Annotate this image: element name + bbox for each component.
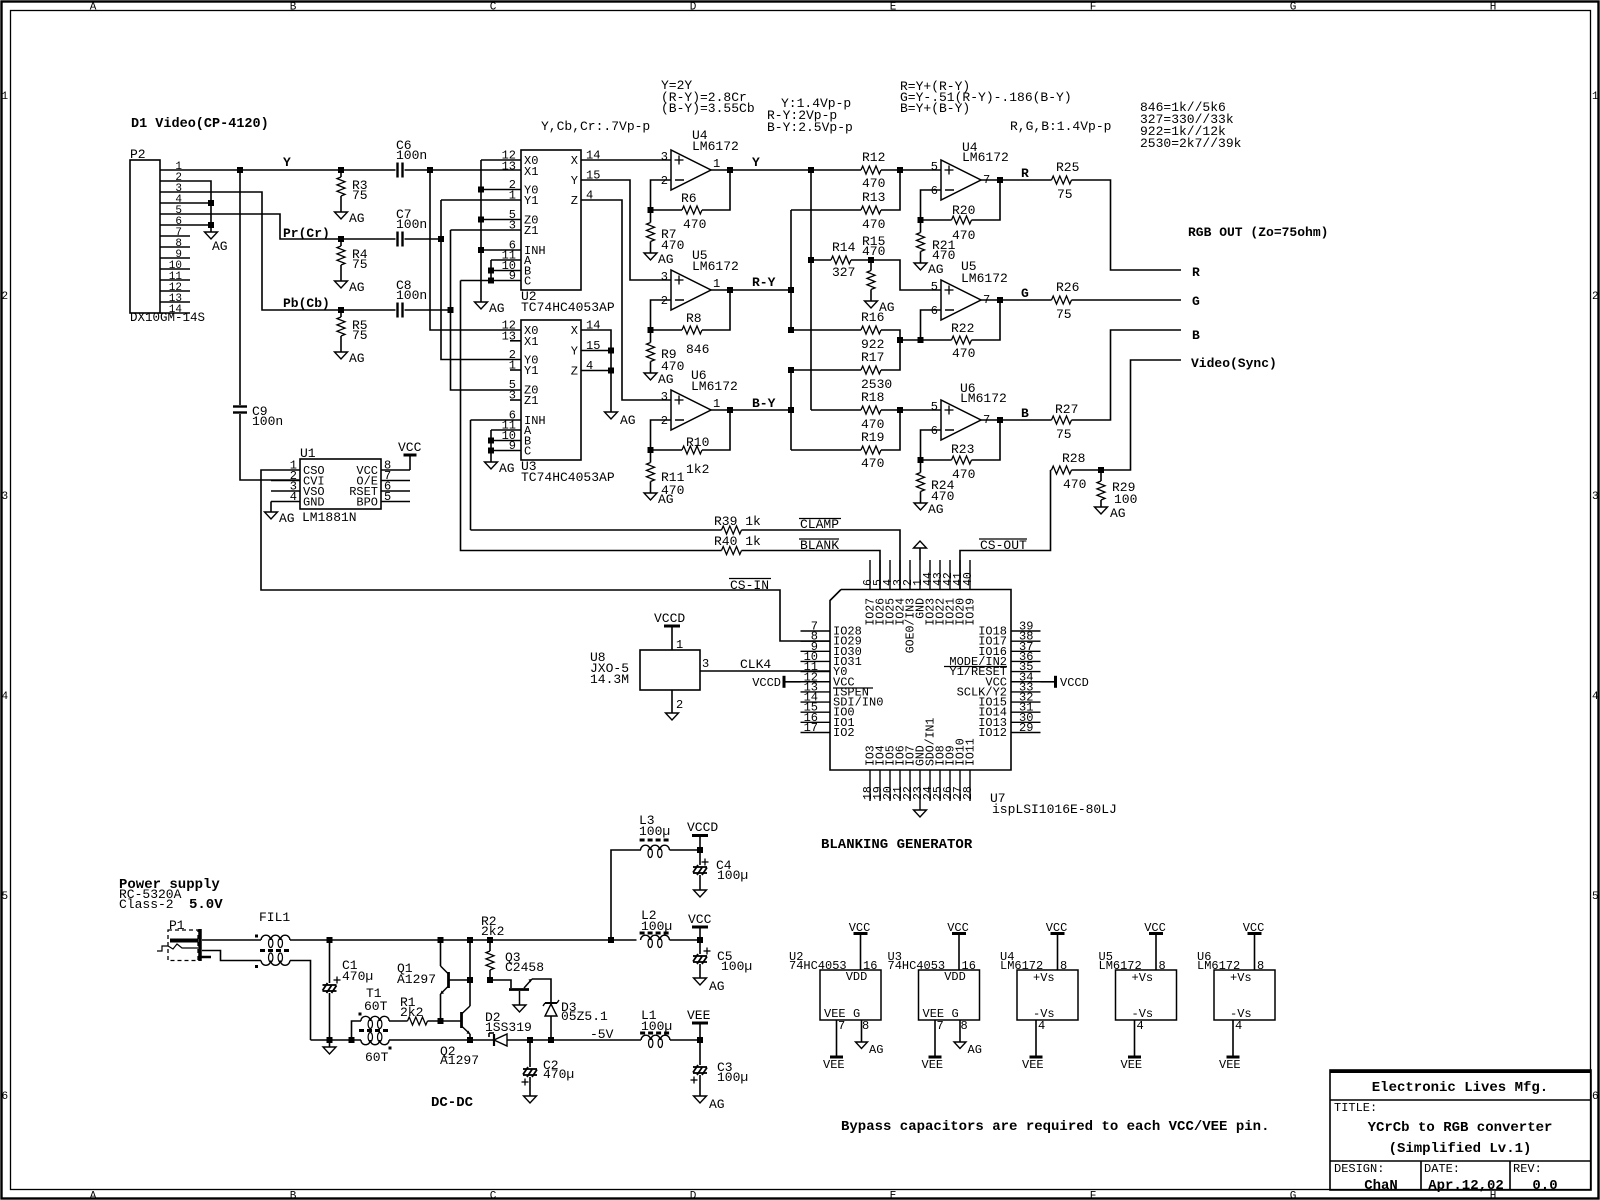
svg-text:3: 3 xyxy=(661,270,668,284)
svg-text:R: R xyxy=(1021,166,1029,181)
svg-text:R,G,B:1.4Vp-p: R,G,B:1.4Vp-p xyxy=(1010,119,1111,134)
wire U2 Z1 / U3 Z0 from Pb node xyxy=(451,229,522,231)
wire Video(Sync) output xyxy=(1101,360,1181,470)
svg-text:6: 6 xyxy=(931,304,938,318)
svg-text:X1: X1 xyxy=(524,165,538,179)
resistor R25 75 xyxy=(1052,176,1072,184)
wire Pr from P2 pin5 xyxy=(190,214,396,239)
wire P1 to FIL1 bottom xyxy=(202,951,261,961)
svg-text:8: 8 xyxy=(961,1019,968,1033)
svg-text:7: 7 xyxy=(937,1019,944,1033)
svg-text:8: 8 xyxy=(1159,959,1166,973)
resistor R16 922 xyxy=(791,329,861,331)
resistor R11 470 to AG xyxy=(647,463,655,482)
svg-text:H: H xyxy=(1490,2,1497,14)
svg-text:13: 13 xyxy=(502,159,516,173)
svg-text:2k2: 2k2 xyxy=(481,924,504,939)
wire U3 A B C to AG xyxy=(491,429,521,431)
svg-text:TC74HC4053AP: TC74HC4053AP xyxy=(521,470,615,485)
svg-text:IO12: IO12 xyxy=(978,726,1007,740)
svg-text:Z: Z xyxy=(571,365,578,379)
svg-text:470: 470 xyxy=(952,467,975,482)
wire U5- feedback xyxy=(651,300,672,343)
overline Y1/RESET xyxy=(944,666,1007,668)
svg-text:VEE: VEE xyxy=(1022,1058,1044,1072)
resistor R6 470 feedback xyxy=(651,209,683,211)
svg-text:B-Y: B-Y xyxy=(752,396,776,411)
svg-text:VCCD: VCCD xyxy=(654,611,685,626)
ground AG below R29 xyxy=(1095,507,1108,514)
wire bottom rail xyxy=(311,1039,362,1041)
svg-text:DESIGN:: DESIGN: xyxy=(1334,1162,1384,1176)
svg-text:17: 17 xyxy=(804,721,818,735)
svg-text:100n: 100n xyxy=(396,217,427,232)
svg-text:CLK4: CLK4 xyxy=(740,657,771,672)
svg-text:Z1: Z1 xyxy=(524,394,538,408)
svg-text:IO19: IO19 xyxy=(965,598,978,626)
svg-text:Y: Y xyxy=(571,174,578,188)
ground AG below R3 xyxy=(335,212,348,219)
svg-text:R16: R16 xyxy=(861,310,884,325)
svg-text:X1: X1 xyxy=(524,335,538,349)
resistor R20 470 feedback xyxy=(921,219,952,221)
resistor R28 470 from CS-OUT xyxy=(1051,469,1052,471)
oscillator U8 JXO-5 14.3M xyxy=(640,650,700,690)
svg-text:C: C xyxy=(490,2,497,14)
svg-text:2: 2 xyxy=(2,291,9,303)
wire U2 X to U4+ xyxy=(581,159,671,161)
wire B output xyxy=(981,419,1052,421)
svg-text:Y: Y xyxy=(752,155,760,170)
svg-text:28: 28 xyxy=(962,786,975,800)
svg-text:470: 470 xyxy=(861,456,884,471)
svg-text:F: F xyxy=(1090,1191,1097,1200)
wire BLANK R40 xyxy=(461,281,722,551)
svg-text:4: 4 xyxy=(1038,1019,1045,1033)
svg-text:D: D xyxy=(690,1191,697,1200)
svg-text:LM1881N: LM1881N xyxy=(302,510,357,525)
ground AG below R4 xyxy=(335,281,348,288)
analog switch U3 TC74HC4053AP xyxy=(521,320,581,460)
capacitor C1 470u xyxy=(329,940,331,983)
svg-text:05Z5.1: 05Z5.1 xyxy=(561,1009,608,1024)
svg-text:R17: R17 xyxy=(861,350,884,365)
svg-text:C: C xyxy=(524,445,531,459)
svg-text:AG: AG xyxy=(928,502,944,517)
wire U3 INH to CLAMP xyxy=(471,419,522,421)
svg-text:-5V: -5V xyxy=(590,1027,614,1042)
svg-text:Y: Y xyxy=(571,345,578,359)
svg-text:AG: AG xyxy=(709,1097,725,1112)
svg-text:C: C xyxy=(524,275,531,289)
svg-text:1: 1 xyxy=(713,277,720,291)
svg-text:G: G xyxy=(952,1007,959,1021)
svg-text:Y1: Y1 xyxy=(524,364,538,378)
wire L3 to VCCD xyxy=(670,849,701,851)
svg-text:AG: AG xyxy=(212,239,228,254)
power VCCD U7 left pin12 xyxy=(784,681,801,683)
ground arrow U7 top GND pin xyxy=(914,541,927,548)
ground U7 bottom GND pin xyxy=(919,801,921,810)
svg-text:BLANKING GENERATOR: BLANKING GENERATOR xyxy=(821,837,973,853)
svg-text:B=Y+(B-Y): B=Y+(B-Y) xyxy=(900,101,970,116)
svg-text:6: 6 xyxy=(931,424,938,438)
capacitor C5 100u xyxy=(699,940,701,954)
svg-text:U1: U1 xyxy=(300,446,316,461)
svg-text:60T: 60T xyxy=(364,999,388,1014)
resistor R24 470 to AG xyxy=(917,473,925,492)
svg-text:1: 1 xyxy=(713,397,720,411)
svg-text:F: F xyxy=(1090,2,1097,14)
wire U2 Y1 / U3 Y0 from Pr node xyxy=(441,199,521,201)
ground AG below R9 xyxy=(644,373,657,380)
svg-text:Pr(Cr): Pr(Cr) xyxy=(283,226,330,241)
svg-text:CS-IN: CS-IN xyxy=(730,578,769,593)
svg-text:Y1: Y1 xyxy=(524,194,538,208)
svg-text:100µ: 100µ xyxy=(717,1070,748,1085)
svg-text:AG: AG xyxy=(709,979,725,994)
svg-text:470µ: 470µ xyxy=(342,969,373,984)
svg-text:327: 327 xyxy=(832,265,855,280)
svg-text:TITLE:: TITLE: xyxy=(1334,1101,1377,1115)
title block xyxy=(1330,1070,1591,1190)
power VCC rail xyxy=(699,928,701,940)
wire rail to VCC xyxy=(670,939,701,941)
svg-text:60T: 60T xyxy=(365,1050,389,1065)
svg-text:VEE: VEE xyxy=(1121,1058,1143,1072)
resistor R14 327 xyxy=(811,259,831,261)
svg-text:Class-2: Class-2 xyxy=(119,897,174,912)
svg-text:R6: R6 xyxy=(681,191,697,206)
wire U4- feedback xyxy=(651,180,672,223)
svg-text:14: 14 xyxy=(169,304,183,316)
svg-text:LM6172: LM6172 xyxy=(961,271,1008,286)
wire U2 ground bus X0 Y0 Z0 INH xyxy=(481,159,521,161)
svg-text:5: 5 xyxy=(1592,891,1599,903)
svg-text:R25: R25 xyxy=(1056,160,1079,175)
ground U8 pin2 xyxy=(671,690,673,713)
PLD U7 ispLSI1016E-80LJ xyxy=(830,590,1011,771)
svg-text:4: 4 xyxy=(1137,1019,1144,1033)
svg-text:100n: 100n xyxy=(396,148,427,163)
svg-text:AG: AG xyxy=(658,492,674,507)
svg-text:+Vs: +Vs xyxy=(1230,971,1252,985)
wire U1 CSO to CS-IN xyxy=(261,470,830,641)
svg-text:E: E xyxy=(890,1191,897,1200)
svg-text:100: 100 xyxy=(1114,492,1137,507)
svg-text:VCCD: VCCD xyxy=(1060,676,1089,690)
svg-text:X: X xyxy=(571,154,578,168)
svg-text:ChaN: ChaN xyxy=(1364,1178,1398,1194)
svg-text:4: 4 xyxy=(2,691,9,703)
connector P2 DX10GM-14S xyxy=(130,160,160,313)
sync separator U1 LM1881N xyxy=(300,459,381,509)
power VEE xyxy=(699,1024,701,1040)
svg-text:G: G xyxy=(1021,286,1029,301)
wire U2 Y to U5+ xyxy=(581,180,671,280)
ground AG below R24 xyxy=(914,503,927,510)
wire U4 output Y node xyxy=(711,169,812,171)
svg-text:2: 2 xyxy=(1592,291,1599,303)
wire U2 A B C tied to BLANK xyxy=(491,259,521,261)
wire CLAMP R39 xyxy=(471,529,722,531)
svg-text:AG: AG xyxy=(928,262,944,277)
svg-text:75: 75 xyxy=(352,257,368,272)
svg-text:6: 6 xyxy=(931,184,938,198)
resistor R22 470 feedback xyxy=(921,339,952,341)
wire CS-OUT xyxy=(960,470,1051,590)
svg-text:R27: R27 xyxy=(1055,402,1078,417)
U7 bottom pins xyxy=(869,770,871,801)
svg-text:470: 470 xyxy=(1063,477,1086,492)
op-amp U6 second half LM6172 B channel xyxy=(941,400,981,440)
svg-text:3: 3 xyxy=(2,491,9,503)
wire B-Y bus vertical xyxy=(790,370,792,450)
svg-text:2: 2 xyxy=(661,294,668,308)
analog switch U2 TC74HC4053AP xyxy=(521,150,581,290)
wire VCCD branch xyxy=(611,850,641,940)
svg-text:Y,Cb,Cr:.7Vp-p: Y,Cb,Cr:.7Vp-p xyxy=(541,119,650,134)
svg-text:DC-DC: DC-DC xyxy=(431,1095,474,1111)
wire G output xyxy=(981,299,1052,301)
svg-text:AG: AG xyxy=(1110,506,1126,521)
svg-text:REV:: REV: xyxy=(1513,1162,1542,1176)
resistor R1 2k2 xyxy=(389,1020,408,1022)
svg-text:AG: AG xyxy=(968,1043,982,1057)
svg-text:2: 2 xyxy=(676,698,683,712)
wire U5b- R22 node xyxy=(921,310,942,340)
svg-text:B-Y:2.5Vp-p: B-Y:2.5Vp-p xyxy=(767,120,853,135)
svg-text:6: 6 xyxy=(1592,1091,1599,1103)
svg-text:LM6172: LM6172 xyxy=(960,391,1007,406)
wire U2 X1 from Y node xyxy=(430,170,521,330)
svg-text:+Vs: +Vs xyxy=(1033,971,1055,985)
svg-text:AG: AG xyxy=(349,280,365,295)
svg-text:470: 470 xyxy=(932,248,955,263)
resistor R29 100 to AG xyxy=(1100,470,1102,481)
svg-text:8: 8 xyxy=(862,1019,869,1033)
svg-text:5: 5 xyxy=(931,160,938,174)
svg-text:4: 4 xyxy=(1592,691,1599,703)
wire Y from P2 pin1 xyxy=(190,169,396,171)
svg-text:DATE:: DATE: xyxy=(1424,1162,1460,1176)
U7 top pins xyxy=(869,560,871,590)
svg-text:74HC4053: 74HC4053 xyxy=(888,959,946,973)
resistor R27 75 xyxy=(1052,416,1072,424)
svg-text:3: 3 xyxy=(1592,491,1599,503)
svg-text:VDD: VDD xyxy=(944,970,966,984)
svg-text:3: 3 xyxy=(661,150,668,164)
svg-text:VCCD: VCCD xyxy=(752,676,781,690)
svg-text:29: 29 xyxy=(1019,721,1033,735)
svg-text:Bypass capacitors are required: Bypass capacitors are required to each V… xyxy=(841,1119,1269,1135)
ground AG below C5 xyxy=(694,978,707,985)
wire R output xyxy=(981,179,1052,181)
node Y junctions xyxy=(237,167,243,173)
capacitor C8 100n xyxy=(396,303,398,318)
wire R16 R17 join xyxy=(900,339,921,341)
wire T1 secondary to -5V rail xyxy=(389,1039,470,1041)
svg-text:G: G xyxy=(1290,1191,1297,1200)
svg-text:R23: R23 xyxy=(951,442,974,457)
svg-text:X: X xyxy=(571,324,578,338)
svg-text:100µ: 100µ xyxy=(639,824,670,839)
svg-text:5.0V: 5.0V xyxy=(189,897,223,913)
svg-text:2530=2k7//39k: 2530=2k7//39k xyxy=(1140,136,1242,151)
svg-text:VCC: VCC xyxy=(688,912,712,927)
power VCCD rail xyxy=(699,837,701,850)
svg-text:C: C xyxy=(490,1191,497,1200)
ground AG below R7 xyxy=(644,253,657,260)
ground on input return xyxy=(329,1040,331,1047)
svg-text:6: 6 xyxy=(2,1091,9,1103)
svg-text:CS-OUT: CS-OUT xyxy=(980,538,1027,553)
svg-text:GND: GND xyxy=(303,496,325,510)
svg-text:74HC4053: 74HC4053 xyxy=(789,959,847,973)
svg-text:LM6172: LM6172 xyxy=(692,259,739,274)
wire FIL1 to +5V rail xyxy=(290,939,637,941)
resistor R23 470 feedback xyxy=(921,459,952,461)
svg-text:2: 2 xyxy=(661,414,668,428)
svg-text:846: 846 xyxy=(686,342,709,357)
svg-text:VEE: VEE xyxy=(823,1058,845,1072)
wire Q1 base to Q2 collector xyxy=(449,979,471,981)
op-amp U5 first half LM6172 xyxy=(671,270,711,310)
svg-text:+Vs: +Vs xyxy=(1132,971,1154,985)
wire U6 output B-Y node xyxy=(711,409,792,411)
resistor R26 75 xyxy=(1052,296,1072,304)
svg-text:Z: Z xyxy=(571,194,578,208)
ground AG P2 xyxy=(205,232,218,239)
svg-text:G: G xyxy=(1290,2,1297,14)
wire R to output terminal xyxy=(1072,180,1182,270)
svg-text:1: 1 xyxy=(713,157,720,171)
wire U4b- R20 R21 node xyxy=(921,190,942,233)
svg-text:4: 4 xyxy=(1235,1019,1242,1033)
svg-text:Electronic Lives Mfg.: Electronic Lives Mfg. xyxy=(1372,1080,1548,1096)
ground AG below R15 xyxy=(865,301,878,308)
resistor R19 470 xyxy=(791,449,861,451)
wire FIL1 return xyxy=(290,961,311,1041)
resistor R13 470 xyxy=(791,209,861,211)
bypass block U4 LM6172 xyxy=(1017,970,1078,1020)
svg-text:A: A xyxy=(90,1191,97,1200)
svg-text:C2458: C2458 xyxy=(505,960,544,975)
svg-text:R22: R22 xyxy=(951,321,974,336)
svg-text:R26: R26 xyxy=(1056,280,1079,295)
svg-text:R20: R20 xyxy=(952,203,975,218)
svg-text:LM6172: LM6172 xyxy=(692,139,739,154)
bypass block U6 LM6172 xyxy=(1214,970,1275,1020)
svg-text:(B-Y)=3.55Cb: (B-Y)=3.55Cb xyxy=(661,101,755,116)
svg-text:3: 3 xyxy=(702,657,709,671)
svg-text:2k2: 2k2 xyxy=(400,1005,423,1020)
svg-text:B: B xyxy=(1192,328,1200,343)
resistor R21 470 to AG xyxy=(917,233,925,252)
svg-text:IO11: IO11 xyxy=(965,738,978,766)
resistor R10 1k2 feedback xyxy=(651,449,683,451)
resistor R4 75 xyxy=(340,239,342,246)
svg-text:G: G xyxy=(1192,294,1200,309)
svg-text:1k2: 1k2 xyxy=(686,462,709,477)
capacitor C3 100u xyxy=(699,1040,701,1065)
svg-text:4: 4 xyxy=(290,490,297,504)
wire B to output terminal xyxy=(1072,330,1182,420)
svg-text:B: B xyxy=(290,2,297,14)
svg-text:40: 40 xyxy=(962,572,975,586)
resistor R7 470 to AG xyxy=(647,223,655,242)
svg-text:7: 7 xyxy=(838,1019,845,1033)
svg-text:B: B xyxy=(290,1191,297,1200)
svg-text:R8: R8 xyxy=(686,311,702,326)
svg-text:AG: AG xyxy=(499,461,515,476)
svg-text:1: 1 xyxy=(1592,91,1599,103)
svg-text:AG: AG xyxy=(658,372,674,387)
svg-text:470µ: 470µ xyxy=(543,1067,574,1082)
svg-text:A: A xyxy=(90,2,97,14)
svg-text:100µ: 100µ xyxy=(721,959,752,974)
svg-text:P1: P1 xyxy=(169,918,185,933)
ground AG U3 outputs xyxy=(605,412,618,419)
svg-text:G: G xyxy=(853,1007,860,1021)
resistor R3 75 xyxy=(340,170,342,177)
svg-text:RGB OUT (Zo=75ohm): RGB OUT (Zo=75ohm) xyxy=(1188,225,1328,240)
svg-text:Z1: Z1 xyxy=(524,224,538,238)
svg-text:470: 470 xyxy=(683,217,706,232)
svg-text:5: 5 xyxy=(931,280,938,294)
wire -5V rail to VEE xyxy=(670,1039,700,1041)
svg-text:VCC: VCC xyxy=(398,440,422,455)
svg-text:2: 2 xyxy=(661,174,668,188)
wire U6b- R23 R24 node xyxy=(921,430,942,473)
svg-text:A1297: A1297 xyxy=(440,1053,479,1068)
resistor R5 75 xyxy=(340,310,342,317)
wire U3 X Y Z outputs to AG xyxy=(581,330,611,412)
capacitor C4 100u xyxy=(699,850,701,865)
U7 left pins xyxy=(801,630,831,632)
svg-text:R: R xyxy=(1192,265,1200,280)
resistor R15 470 to AG xyxy=(870,260,872,271)
op-amp U4 first half LM6172 xyxy=(671,150,711,190)
svg-text:R39 1k: R39 1k xyxy=(714,514,761,529)
svg-text:3: 3 xyxy=(661,390,668,404)
wire U3 dead stubs X1 Y1 Z1 xyxy=(510,340,521,342)
wire P2 pin2/4/6 to AG xyxy=(190,181,211,232)
svg-text:TC74HC4053AP: TC74HC4053AP xyxy=(521,300,615,315)
overline ISPEN xyxy=(833,687,873,689)
svg-text:75: 75 xyxy=(1057,187,1073,202)
svg-text:BLANK: BLANK xyxy=(800,538,839,553)
svg-text:100µ: 100µ xyxy=(717,868,748,883)
ground AG below C3 xyxy=(694,1096,707,1103)
svg-text:0.0: 0.0 xyxy=(1532,1178,1557,1194)
svg-text:14.3M: 14.3M xyxy=(590,672,629,687)
svg-text:75: 75 xyxy=(352,328,368,343)
svg-text:100n: 100n xyxy=(252,414,283,429)
wire Pb from P2 pin3 xyxy=(190,192,396,310)
svg-text:Y: Y xyxy=(283,155,291,170)
svg-text:AG: AG xyxy=(349,351,365,366)
wire Y bus vertical xyxy=(810,170,812,410)
wire R-Y bus vertical xyxy=(790,210,792,330)
wire U5 output R-Y node xyxy=(711,289,792,291)
svg-text:R12: R12 xyxy=(862,150,885,165)
svg-text:5: 5 xyxy=(2,891,9,903)
bypass block U2 74HC4053 xyxy=(820,970,881,1020)
svg-text:E: E xyxy=(890,2,897,14)
svg-text:VEE: VEE xyxy=(1219,1058,1241,1072)
op-amp U4 second half LM6172 R channel xyxy=(941,160,981,200)
